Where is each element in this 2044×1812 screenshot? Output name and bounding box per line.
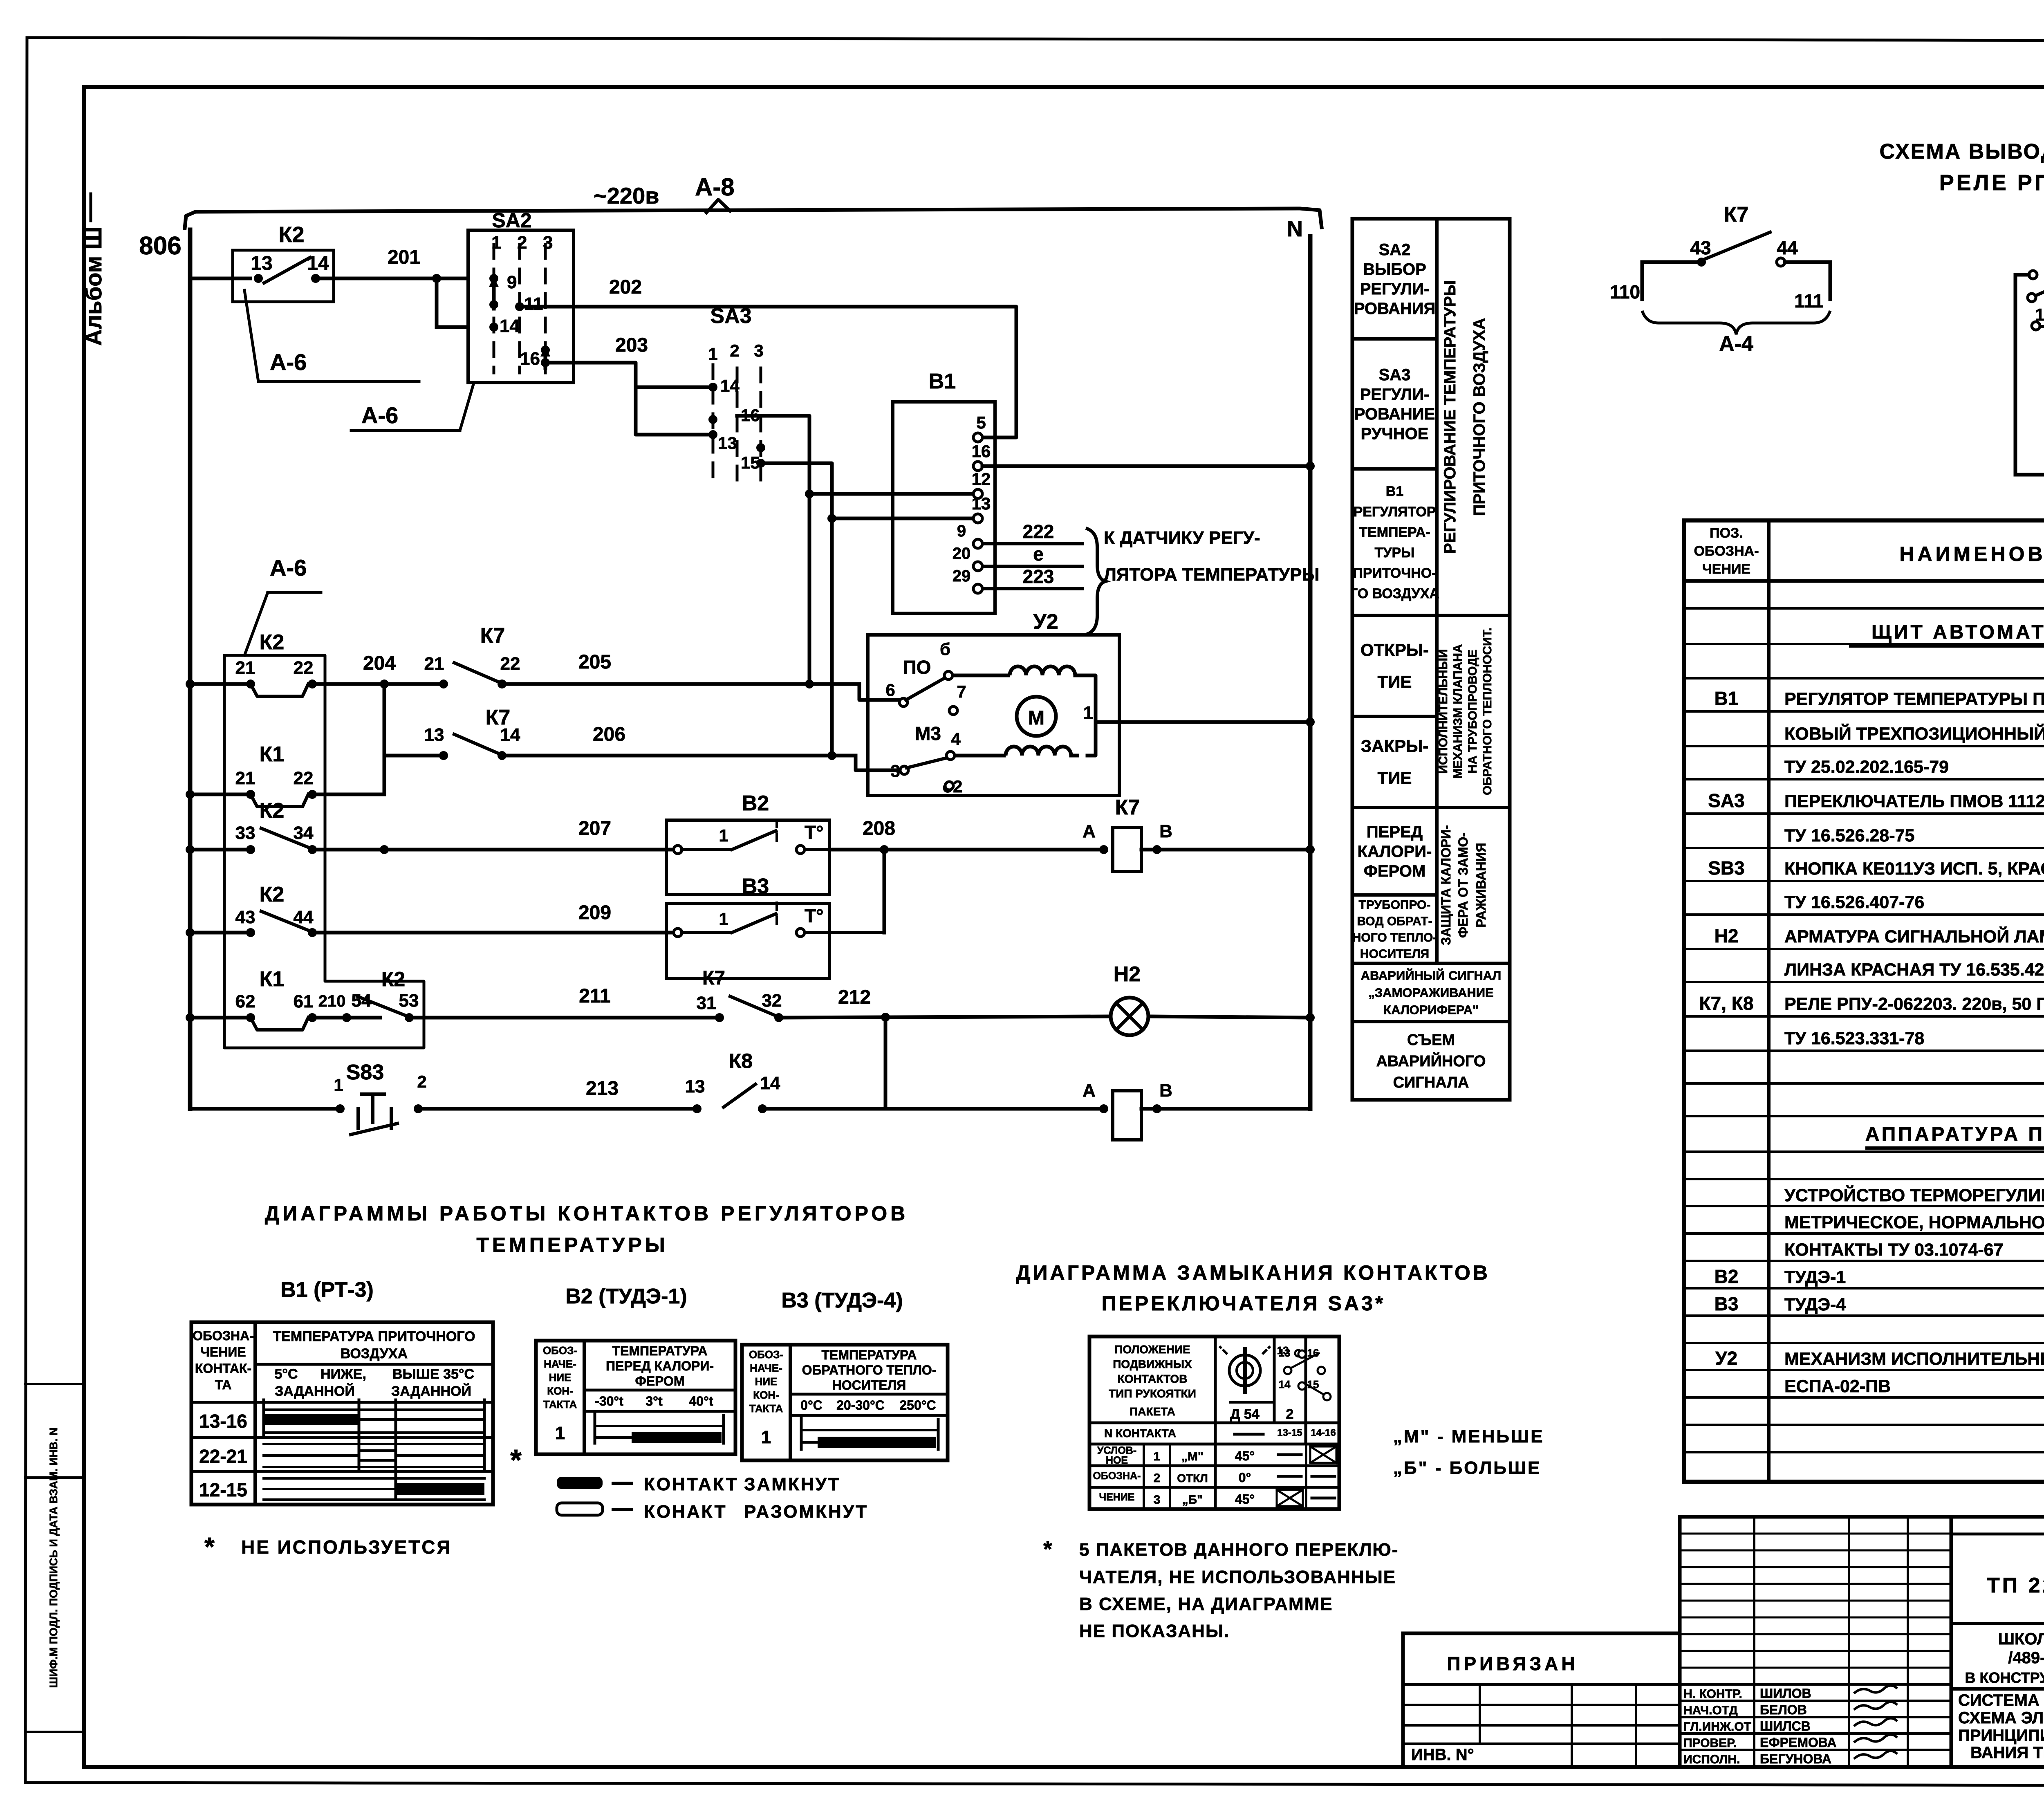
svg-text:ЗАЩИТА КАЛОРИ-: ЗАЩИТА КАЛОРИ- — [1439, 825, 1453, 945]
svg-text:ПАКЕТА: ПАКЕТА — [1130, 1405, 1175, 1418]
svg-text:1: 1 — [719, 826, 728, 845]
svg-text:КАЛОРИ-: КАЛОРИ- — [1358, 843, 1432, 861]
svg-text:ИСПОЛН.: ИСПОЛН. — [1683, 1753, 1740, 1766]
svg-text:SA3: SA3 — [710, 304, 751, 328]
svg-text:РАЗОМКНУТ: РАЗОМКНУТ — [744, 1502, 868, 1522]
svg-text:К7: К7 — [1115, 796, 1140, 819]
svg-text:ЩИТ АВТОМАТИЗАЦИИ: ЩИТ АВТОМАТИЗАЦИИ — [1871, 621, 2044, 643]
svg-text:13: 13 — [685, 1076, 705, 1097]
svg-text:ОБОЗНА-: ОБОЗНА- — [1093, 1470, 1141, 1482]
svg-text:„М": „М" — [1181, 1450, 1204, 1463]
svg-text:14: 14 — [1279, 1378, 1291, 1390]
svg-text:КОНАКТ: КОНАКТ — [644, 1502, 727, 1522]
svg-text:ПЕРЕКЛЮЧАТЕЛЬ ПМОВ 111222/П-45: ПЕРЕКЛЮЧАТЕЛЬ ПМОВ 111222/П-454 — [1784, 792, 2044, 811]
svg-text:9: 9 — [507, 272, 517, 292]
svg-text:ЛИНЗА КРАСНАЯ ТУ 16.535.426-70: ЛИНЗА КРАСНАЯ ТУ 16.535.426-70 — [1784, 960, 2044, 980]
svg-text:ТЕМПЕРА-: ТЕМПЕРА- — [1359, 525, 1430, 540]
svg-text:НОГО ТЕПЛО-: НОГО ТЕПЛО- — [1352, 931, 1437, 944]
svg-text:62: 62 — [235, 991, 255, 1011]
svg-text:ТИП РУКОЯТКИ: ТИП РУКОЯТКИ — [1109, 1387, 1196, 1400]
svg-text:29: 29 — [953, 567, 971, 585]
svg-text:ВОД ОБРАТ-: ВОД ОБРАТ- — [1357, 915, 1432, 928]
svg-text:КОНТАКТОВ: КОНТАКТОВ — [1118, 1372, 1188, 1385]
svg-text:ТЕМПЕРАТУРЫ: ТЕМПЕРАТУРЫ — [476, 1233, 668, 1256]
svg-text:44: 44 — [1777, 237, 1798, 258]
svg-text:13-15: 13-15 — [1277, 1427, 1302, 1438]
svg-text:ТП 222-1-467.86: ТП 222-1-467.86 — [1987, 1574, 2044, 1597]
svg-text:16: 16 — [972, 442, 991, 461]
svg-text:К7: К7 — [1724, 203, 1749, 226]
svg-text:ПОДВИЖНЫХ: ПОДВИЖНЫХ — [1113, 1358, 1192, 1370]
svg-text:0°С: 0°С — [800, 1398, 823, 1413]
svg-text:ОБОЗНА-: ОБОЗНА- — [1694, 543, 1759, 559]
svg-text:1: 1 — [1154, 1450, 1161, 1463]
svg-text:2: 2 — [517, 233, 527, 253]
svg-text:„Б": „Б" — [1182, 1493, 1203, 1507]
svg-text:1: 1 — [555, 1423, 565, 1443]
svg-text:ЗАДАННОЙ: ЗАДАННОЙ — [391, 1383, 471, 1399]
svg-text:НИЕ: НИЕ — [549, 1371, 572, 1384]
svg-text:ПЕРЕКЛЮЧАТЕЛЯ SА3*: ПЕРЕКЛЮЧАТЕЛЯ SА3* — [1102, 1292, 1386, 1315]
svg-text:1: 1 — [491, 233, 501, 253]
svg-text:5°С: 5°С — [274, 1366, 298, 1382]
svg-text:В1: В1 — [1386, 484, 1403, 499]
svg-text:ШИЛОВ: ШИЛОВ — [1760, 1686, 1811, 1701]
svg-text:СИСТЕМА ПРИТОЧНАЯ П1(П2): СИСТЕМА ПРИТОЧНАЯ П1(П2) — [1958, 1691, 2044, 1709]
svg-text:Д 54: Д 54 — [1230, 1406, 1260, 1422]
svg-text:ЧАТЕЛЯ, НЕ ИСПОЛЬЗОВАННЫЕ: ЧАТЕЛЯ, НЕ ИСПОЛЬЗОВАННЫЕ — [1079, 1567, 1396, 1587]
svg-text:3°t: 3°t — [645, 1394, 663, 1408]
svg-text:В1: В1 — [1715, 688, 1739, 709]
svg-text:11: 11 — [524, 294, 543, 314]
svg-text:„М" - МЕНЬШЕ: „М" - МЕНЬШЕ — [1393, 1426, 1544, 1446]
svg-text:БЕГУНОВА: БЕГУНОВА — [1760, 1751, 1831, 1766]
svg-text:УСТРОЙСТВО ТЕРМОРЕГУЛИРУЮЩЕЕ: УСТРОЙСТВО ТЕРМОРЕГУЛИРУЮЩЕЕ — [1784, 1185, 2044, 1205]
svg-text:53: 53 — [399, 991, 419, 1011]
svg-text:У2: У2 — [1715, 1348, 1737, 1369]
svg-text:В СХЕМЕ, НА ДИАГРАММЕ: В СХЕМЕ, НА ДИАГРАММЕ — [1079, 1594, 1333, 1614]
svg-text:14-16: 14-16 — [1311, 1427, 1336, 1438]
svg-text:ТЕМПЕРАТУРА: ТЕМПЕРАТУРА — [612, 1343, 707, 1358]
svg-text:ПРИВЯЗАН: ПРИВЯЗАН — [1447, 1653, 1578, 1674]
svg-text:211: 211 — [579, 985, 610, 1007]
svg-text:НЕ ПОКАЗАНЫ.: НЕ ПОКАЗАНЫ. — [1079, 1621, 1230, 1641]
svg-text:ПРИТОЧНОГО ВОЗДУХА: ПРИТОЧНОГО ВОЗДУХА — [1470, 318, 1488, 516]
svg-text:22: 22 — [294, 768, 314, 788]
svg-text:АРМАТУРА СИГНАЛЬНОЙ ЛАМПЫ АС-2: АРМАТУРА СИГНАЛЬНОЙ ЛАМПЫ АС-220 — [1784, 926, 2044, 946]
svg-text:К2: К2 — [279, 222, 305, 247]
svg-text:2: 2 — [730, 341, 739, 360]
svg-text:РАЖИВАНИЯ: РАЖИВАНИЯ — [1474, 843, 1488, 927]
svg-text:Т°: Т° — [805, 905, 824, 926]
svg-text:ТИЕ: ТИЕ — [1378, 768, 1412, 787]
svg-text:204: 204 — [363, 653, 396, 674]
svg-text:ТУ 16.526.407-76: ТУ 16.526.407-76 — [1784, 893, 1924, 912]
svg-text:НАИМЕНОВАНИЕ: НАИМЕНОВАНИЕ — [1899, 543, 2044, 565]
svg-text:НОСИТЕЛЯ: НОСИТЕЛЯ — [832, 1378, 906, 1393]
svg-text:НЕ ИСПОЛЬЗУЕТСЯ: НЕ ИСПОЛЬЗУЕТСЯ — [241, 1536, 452, 1558]
svg-text:21: 21 — [235, 658, 255, 678]
svg-text:34: 34 — [294, 823, 314, 843]
svg-text:В1 (РТ-3): В1 (РТ-3) — [280, 1278, 374, 1302]
svg-text:2: 2 — [1286, 1406, 1294, 1422]
svg-text:РЕГУЛЯТОР ТЕМПЕРАТУРЫ ПОЛУПРОВ: РЕГУЛЯТОР ТЕМПЕРАТУРЫ ПОЛУПРОВОДНИ- — [1784, 689, 2044, 709]
svg-text:СИГНАЛА: СИГНАЛА — [1393, 1074, 1469, 1091]
svg-text:9: 9 — [957, 522, 966, 540]
svg-text:205: 205 — [578, 651, 611, 673]
svg-text:ОБРАТНОГО ТЕПЛО-: ОБРАТНОГО ТЕПЛО- — [802, 1363, 937, 1377]
svg-text:Н2: Н2 — [1715, 925, 1739, 946]
svg-text:КОВЫЙ ТРЕХПОЗИЦИОННЫЙ РТ-3: КОВЫЙ ТРЕХПОЗИЦИОННЫЙ РТ-3 — [1784, 724, 2044, 744]
svg-text:ИСПОЛНИТЕЛЬНЫЙ: ИСПОЛНИТЕЛЬНЫЙ — [1436, 649, 1450, 774]
svg-text:ШКОЛА НА 13 КЛАССОВ: ШКОЛА НА 13 КЛАССОВ — [1998, 1630, 2044, 1648]
svg-text:250°С: 250°С — [899, 1398, 936, 1413]
svg-text:„ЗАМОРАЖИВАНИЕ: „ЗАМОРАЖИВАНИЕ — [1368, 985, 1493, 1000]
svg-text:2: 2 — [417, 1072, 426, 1091]
svg-text:/489-504 УЧАЩИХСЯ /: /489-504 УЧАЩИХСЯ / — [2008, 1649, 2044, 1667]
svg-text:Н2: Н2 — [1114, 962, 1141, 986]
svg-text:СХЕМА ЭЛЕКТРИЧЕСКАЯ: СХЕМА ЭЛЕКТРИЧЕСКАЯ — [1958, 1709, 2044, 1727]
svg-text:ОТКЛ: ОТКЛ — [1177, 1472, 1208, 1485]
svg-text:45°: 45° — [1235, 1492, 1255, 1507]
svg-text:111: 111 — [1794, 290, 1824, 312]
svg-text:12: 12 — [972, 469, 991, 489]
svg-text:НОСИТЕЛЯ: НОСИТЕЛЯ — [1360, 947, 1429, 961]
svg-text:13: 13 — [972, 494, 991, 513]
svg-text:13: 13 — [251, 253, 272, 274]
svg-text:Альбом Ш: Альбом Ш — [81, 226, 106, 346]
svg-text:14: 14 — [720, 376, 740, 395]
svg-text:N КОНТАКТА: N КОНТАКТА — [1104, 1427, 1176, 1440]
svg-text:СЪЕМ: СЪЕМ — [1407, 1032, 1455, 1049]
svg-text:110: 110 — [1610, 281, 1640, 303]
svg-text:НАЧЕ-: НАЧЕ- — [544, 1358, 576, 1370]
svg-text:ТЕМПЕРАТУРА: ТЕМПЕРАТУРА — [821, 1348, 917, 1362]
svg-text:А-4: А-4 — [1719, 332, 1753, 356]
svg-text:К7, К8: К7, К8 — [1699, 993, 1754, 1014]
svg-text:„Б" - БОЛЬШЕ: „Б" - БОЛЬШЕ — [1393, 1458, 1541, 1478]
svg-text:РОВАНИЯ: РОВАНИЯ — [1354, 300, 1435, 318]
svg-text:209: 209 — [578, 902, 611, 924]
svg-text:РЕГУЛИ-: РЕГУЛИ- — [1360, 386, 1430, 404]
svg-text:*: * — [1043, 1536, 1052, 1562]
svg-text:207: 207 — [578, 818, 611, 839]
svg-text:РЕГУЛЯТОР: РЕГУЛЯТОР — [1354, 504, 1436, 520]
svg-text:61: 61 — [294, 991, 314, 1011]
svg-text:806: 806 — [139, 232, 181, 260]
svg-text:22: 22 — [500, 654, 520, 674]
svg-text:ПОЛОЖЕНИЕ: ПОЛОЖЕНИЕ — [1114, 1343, 1190, 1356]
svg-text:К1: К1 — [260, 967, 285, 991]
svg-text:ОБРАТНОГО ТЕПЛОНОСИТ.: ОБРАТНОГО ТЕПЛОНОСИТ. — [1481, 628, 1494, 795]
svg-text:213: 213 — [586, 1078, 619, 1099]
svg-text:ПРИНЦИПИАЛЬНАЯ РЕГУЛИРО-: ПРИНЦИПИАЛЬНАЯ РЕГУЛИРО- — [1958, 1727, 2044, 1745]
svg-text:ТУ 16.523.331-78: ТУ 16.523.331-78 — [1784, 1029, 1924, 1048]
svg-text:6: 6 — [885, 680, 895, 700]
svg-text:43: 43 — [235, 907, 255, 927]
svg-text:32: 32 — [762, 991, 782, 1011]
svg-text:КОНТАКТЫ ТУ 03.1074-67: КОНТАКТЫ ТУ 03.1074-67 — [1784, 1240, 2004, 1260]
svg-text:45°: 45° — [1235, 1449, 1255, 1463]
svg-text:А: А — [1083, 1081, 1096, 1101]
svg-text:5: 5 — [976, 413, 986, 432]
svg-text:13-16: 13-16 — [199, 1411, 247, 1432]
svg-text:3: 3 — [890, 761, 900, 780]
svg-text:22-21: 22-21 — [199, 1446, 247, 1467]
svg-text:е: е — [1033, 543, 1044, 565]
svg-text:ЗАМКНУТ: ЗАМКНУТ — [744, 1474, 841, 1494]
svg-text:212: 212 — [838, 987, 871, 1008]
svg-text:ФЕРОМ: ФЕРОМ — [635, 1374, 684, 1388]
svg-text:21: 21 — [235, 768, 255, 788]
svg-text:ПЕРЕД КАЛОРИ-: ПЕРЕД КАЛОРИ- — [606, 1359, 714, 1373]
svg-text:ГЛ.ИНЖ.ОТ: ГЛ.ИНЖ.ОТ — [1683, 1720, 1751, 1734]
svg-text:ВЫБОР: ВЫБОР — [1363, 260, 1426, 278]
svg-text:206: 206 — [593, 724, 625, 745]
svg-text:ПЕРЕД: ПЕРЕД — [1367, 823, 1423, 841]
svg-text:НИЖЕ,: НИЖЕ, — [320, 1366, 366, 1382]
svg-text:МЕТРИЧЕСКОЕ, НОРМАЛЬНО ОТКРЫТЫ: МЕТРИЧЕСКОЕ, НОРМАЛЬНО ОТКРЫТЫЕ — [1784, 1213, 2044, 1232]
svg-text:В3 (ТУДЭ-4): В3 (ТУДЭ-4) — [781, 1289, 903, 1312]
svg-text:ТУРЫ: ТУРЫ — [1375, 545, 1415, 561]
svg-text:1: 1 — [334, 1075, 343, 1094]
svg-text:СХЕМА ВЫВОДОВ КОНТАКТОВ И КАТУ: СХЕМА ВЫВОДОВ КОНТАКТОВ И КАТУШКИ — [1880, 140, 2044, 164]
svg-text:ОТКРЫ-: ОТКРЫ- — [1360, 640, 1429, 659]
svg-text:РЕЛЕ РПУ-2-062203. 220в, 50 ГЦ: РЕЛЕ РПУ-2-062203. 220в, 50 ГЦ — [1784, 994, 2044, 1014]
svg-text:ТУДЭ-4: ТУДЭ-4 — [1784, 1295, 1846, 1314]
svg-text:В: В — [1159, 1081, 1172, 1101]
svg-text:SA3: SA3 — [1379, 366, 1411, 384]
svg-text:К2: К2 — [260, 630, 285, 654]
svg-text:К7: К7 — [480, 624, 505, 648]
svg-text:13: 13 — [1279, 1347, 1291, 1359]
svg-text:ОБОЗ-: ОБОЗ- — [749, 1348, 783, 1361]
svg-text:1: 1 — [708, 344, 717, 363]
svg-text:РЕГУЛИРОВАНИЕ ТЕМПЕРАТУРЫ: РЕГУЛИРОВАНИЕ ТЕМПЕРАТУРЫ — [1441, 280, 1459, 554]
svg-text:РЕГУЛИ-: РЕГУЛИ- — [1360, 280, 1430, 298]
svg-text:SВ3: SВ3 — [1708, 857, 1744, 879]
svg-text:ДИАГРАММЫ РАБОТЫ КОНТАКТОВ РЕГ: ДИАГРАММЫ РАБОТЫ КОНТАКТОВ РЕГУЛЯТОРОВ — [265, 1202, 909, 1225]
svg-text:К ДАТЧИКУ РЕГУ-: К ДАТЧИКУ РЕГУ- — [1104, 528, 1260, 548]
svg-text:ШИФ.М ПОДЛ. ПОДПИСЬ И ДАТА ВЗА: ШИФ.М ПОДЛ. ПОДПИСЬ И ДАТА ВЗАМ. ИНВ. N — [47, 1428, 60, 1688]
svg-text:ПО: ПО — [903, 657, 931, 678]
svg-text:БЕЛОВ: БЕЛОВ — [1760, 1702, 1807, 1717]
svg-text:14: 14 — [500, 725, 520, 745]
svg-text:3: 3 — [754, 341, 763, 360]
svg-text:ТУ 25.02.202.165-79: ТУ 25.02.202.165-79 — [1784, 757, 1949, 777]
svg-text:12-15: 12-15 — [199, 1479, 247, 1500]
svg-text:В2: В2 — [742, 792, 769, 815]
svg-text:ТАКТА: ТАКТА — [749, 1402, 783, 1415]
svg-text:А-8: А-8 — [695, 173, 735, 201]
svg-text:2: 2 — [1154, 1471, 1161, 1485]
svg-text:ТА: ТА — [215, 1377, 232, 1392]
svg-text:У2: У2 — [1033, 610, 1058, 634]
svg-text:РОВАНИЕ: РОВАНИЕ — [1354, 405, 1435, 423]
svg-text:20: 20 — [953, 545, 971, 563]
svg-text:НА ТРУБОПРОВОДЕ: НА ТРУБОПРОВОДЕ — [1466, 650, 1479, 774]
svg-text:В КОНСТРУКЦИЯХ СЕРИИ 1.020-1/8: В КОНСТРУКЦИЯХ СЕРИИ 1.020-1/83 — [1965, 1669, 2044, 1686]
svg-text:ЧЕНИЕ: ЧЕНИЕ — [1099, 1491, 1135, 1503]
svg-text:208: 208 — [863, 818, 895, 839]
svg-text:4: 4 — [951, 729, 961, 749]
svg-text:ДИАГРАММА ЗАМЫКАНИЯ КОНТАКТОВ: ДИАГРАММА ЗАМЫКАНИЯ КОНТАКТОВ — [1016, 1261, 1490, 1284]
svg-text:ВЫШЕ 35°С: ВЫШЕ 35°С — [392, 1366, 474, 1382]
svg-text:В3: В3 — [1715, 1293, 1739, 1314]
svg-text:В1: В1 — [929, 370, 956, 393]
svg-text:ТЕМПЕРАТУРА ПРИТОЧНОГО: ТЕМПЕРАТУРА ПРИТОЧНОГО — [273, 1329, 475, 1344]
svg-text:21: 21 — [424, 654, 444, 674]
svg-text:ТАКТА: ТАКТА — [543, 1398, 577, 1411]
svg-text:В2: В2 — [1715, 1266, 1739, 1287]
svg-text:К1: К1 — [260, 742, 285, 766]
svg-text:КОНТАК-: КОНТАК- — [195, 1361, 251, 1376]
svg-text:НАЧ.ОТД: НАЧ.ОТД — [1683, 1704, 1738, 1717]
svg-text:13: 13 — [424, 725, 444, 745]
svg-text:203: 203 — [615, 334, 648, 356]
svg-text:3: 3 — [1154, 1493, 1161, 1507]
svg-text:МЕХАНИЗМ ИСПОЛНИТЕЛЬНЫЙ МОТОРН: МЕХАНИЗМ ИСПОЛНИТЕЛЬНЫЙ МОТОРНЫЙ — [1784, 1349, 2044, 1369]
svg-text:ЧЕНИЕ: ЧЕНИЕ — [200, 1345, 246, 1359]
svg-text:КАЛОРИФЕРА": КАЛОРИФЕРА" — [1383, 1002, 1479, 1017]
svg-text:Т°: Т° — [805, 822, 824, 843]
svg-text:3: 3 — [543, 233, 553, 253]
svg-text:В: В — [1159, 821, 1172, 841]
svg-text:М3: М3 — [915, 723, 941, 744]
svg-text:В2 (ТУДЭ-1): В2 (ТУДЭ-1) — [565, 1285, 687, 1308]
svg-text:S83: S83 — [346, 1061, 384, 1084]
svg-text:ЗАКРЫ-: ЗАКРЫ- — [1361, 736, 1428, 756]
svg-text:ТРУБОПРО-: ТРУБОПРО- — [1358, 898, 1430, 912]
svg-text:ЕФРЕМОВА: ЕФРЕМОВА — [1760, 1735, 1837, 1750]
svg-text:N: N — [1287, 217, 1303, 241]
svg-text:КОН-: КОН- — [753, 1389, 779, 1401]
svg-text:ПРИТОЧНО-: ПРИТОЧНО- — [1353, 565, 1436, 581]
svg-text:НИЕ: НИЕ — [755, 1375, 778, 1388]
svg-text:31: 31 — [697, 993, 717, 1013]
svg-text:SА3: SА3 — [1708, 790, 1744, 811]
svg-text:ЧЕНИЕ: ЧЕНИЕ — [1702, 561, 1750, 577]
svg-text:РУЧНОЕ: РУЧНОЕ — [1361, 425, 1429, 443]
svg-text:ПОЗ.: ПОЗ. — [1710, 525, 1743, 541]
svg-text:ВОЗДУХА: ВОЗДУХА — [341, 1346, 408, 1361]
svg-text:*: * — [204, 1532, 215, 1561]
svg-text:ФЕРА ОТ ЗАМО-: ФЕРА ОТ ЗАМО- — [1456, 832, 1470, 938]
svg-text:ФЕРОМ: ФЕРОМ — [1364, 862, 1425, 880]
svg-text:ТУ 16.526.28-75: ТУ 16.526.28-75 — [1784, 826, 1914, 845]
svg-text:*: * — [510, 1444, 522, 1477]
svg-text:А-6: А-6 — [270, 349, 307, 375]
svg-text:М: М — [1028, 707, 1044, 729]
svg-text:РЕЛЕ РПУ-2-062 К7, К8: РЕЛЕ РПУ-2-062 К7, К8 — [1939, 170, 2044, 195]
svg-text:К8: К8 — [729, 1050, 753, 1072]
svg-text:К2: К2 — [260, 883, 285, 906]
svg-text:SA2: SA2 — [492, 209, 531, 232]
svg-text:0°: 0° — [1239, 1470, 1251, 1485]
svg-text:ГО ВОЗДУХА: ГО ВОЗДУХА — [1350, 586, 1439, 601]
svg-text:33: 33 — [235, 823, 255, 843]
svg-text:В3: В3 — [742, 875, 769, 898]
svg-text:210: 210 — [318, 992, 346, 1010]
svg-text:14: 14 — [500, 316, 520, 336]
svg-text:SA2: SA2 — [1379, 241, 1411, 259]
svg-text:А-6: А-6 — [361, 402, 398, 428]
svg-text:ОБОЗНА-: ОБОЗНА- — [193, 1328, 254, 1343]
svg-text:МЕХАНИЗМ КЛАПАНА: МЕХАНИЗМ КЛАПАНА — [1451, 644, 1465, 778]
svg-text:ИНВ. N°: ИНВ. N° — [1411, 1746, 1474, 1764]
svg-text:1: 1 — [719, 909, 728, 928]
svg-text:40°t: 40°t — [689, 1394, 713, 1408]
svg-text:ТУДЭ-1: ТУДЭ-1 — [1784, 1267, 1846, 1287]
svg-text:ОБОЗ-: ОБОЗ- — [543, 1344, 577, 1357]
svg-text:б: б — [940, 639, 950, 659]
svg-text:201: 201 — [388, 247, 420, 268]
svg-text:ЛЯТОРА ТЕМПЕРАТУРЫ: ЛЯТОРА ТЕМПЕРАТУРЫ — [1104, 565, 1320, 585]
svg-text:К2: К2 — [381, 968, 405, 991]
svg-text:А-6: А-6 — [270, 555, 307, 581]
svg-text:Н. КОНТР.: Н. КОНТР. — [1683, 1687, 1742, 1701]
svg-text:ЕСПА-02-ПВ: ЕСПА-02-ПВ — [1784, 1377, 1891, 1396]
svg-text:16: 16 — [520, 349, 540, 369]
svg-text:К2: К2 — [260, 799, 285, 823]
svg-text:ТИЕ: ТИЕ — [1378, 672, 1412, 691]
svg-text:1: 1 — [761, 1427, 771, 1447]
svg-text:А: А — [1083, 821, 1096, 841]
svg-text:ПРОВЕР.: ПРОВЕР. — [1683, 1736, 1737, 1750]
svg-text:~220в: ~220в — [594, 183, 659, 209]
svg-text:АППАРАТУРА ПО МЕСТУ: АППАРАТУРА ПО МЕСТУ — [1865, 1124, 2044, 1145]
svg-text:ШИЛСВ: ШИЛСВ — [1760, 1719, 1811, 1734]
svg-text:НОЕ: НОЕ — [1106, 1455, 1128, 1466]
svg-text:КОН-: КОН- — [547, 1385, 573, 1397]
svg-text:5 ПАКЕТОВ ДАННОГО ПЕРЕКЛЮ-: 5 ПАКЕТОВ ДАННОГО ПЕРЕКЛЮ- — [1079, 1540, 1399, 1560]
svg-text:-30°t: -30°t — [595, 1394, 623, 1408]
svg-text:15: 15 — [741, 453, 760, 472]
svg-text:7: 7 — [957, 682, 966, 701]
svg-text:13: 13 — [718, 433, 737, 453]
svg-text:КНОПКА КЕ011УЗ ИСП. 5, КРАСНЫЙ: КНОПКА КЕ011УЗ ИСП. 5, КРАСНЫЙ — [1784, 859, 2044, 879]
svg-text:14: 14 — [760, 1073, 780, 1093]
svg-text:КОНТАКТ: КОНТАКТ — [644, 1474, 739, 1494]
svg-text:К7: К7 — [702, 967, 725, 989]
svg-text:1: 1 — [1083, 703, 1093, 723]
svg-text:222: 222 — [1023, 521, 1054, 542]
svg-text:202: 202 — [609, 276, 642, 298]
svg-text:43: 43 — [1690, 237, 1711, 258]
svg-text:20-30°С: 20-30°С — [836, 1398, 885, 1413]
svg-text:223: 223 — [1023, 566, 1054, 587]
svg-text:22: 22 — [294, 658, 314, 678]
svg-text:АВАРИЙНЫЙ СИГНАЛ: АВАРИЙНЫЙ СИГНАЛ — [1361, 968, 1502, 982]
svg-text:АВАРИЙНОГО: АВАРИЙНОГО — [1376, 1052, 1486, 1070]
svg-text:НАЧЕ-: НАЧЕ- — [750, 1362, 782, 1374]
svg-text:ЗАДАННОЙ: ЗАДАННОЙ — [275, 1383, 355, 1399]
svg-text:ВАНИЯ ТЕМПЕРАТУРЫ.: ВАНИЯ ТЕМПЕРАТУРЫ. — [1970, 1744, 2044, 1762]
